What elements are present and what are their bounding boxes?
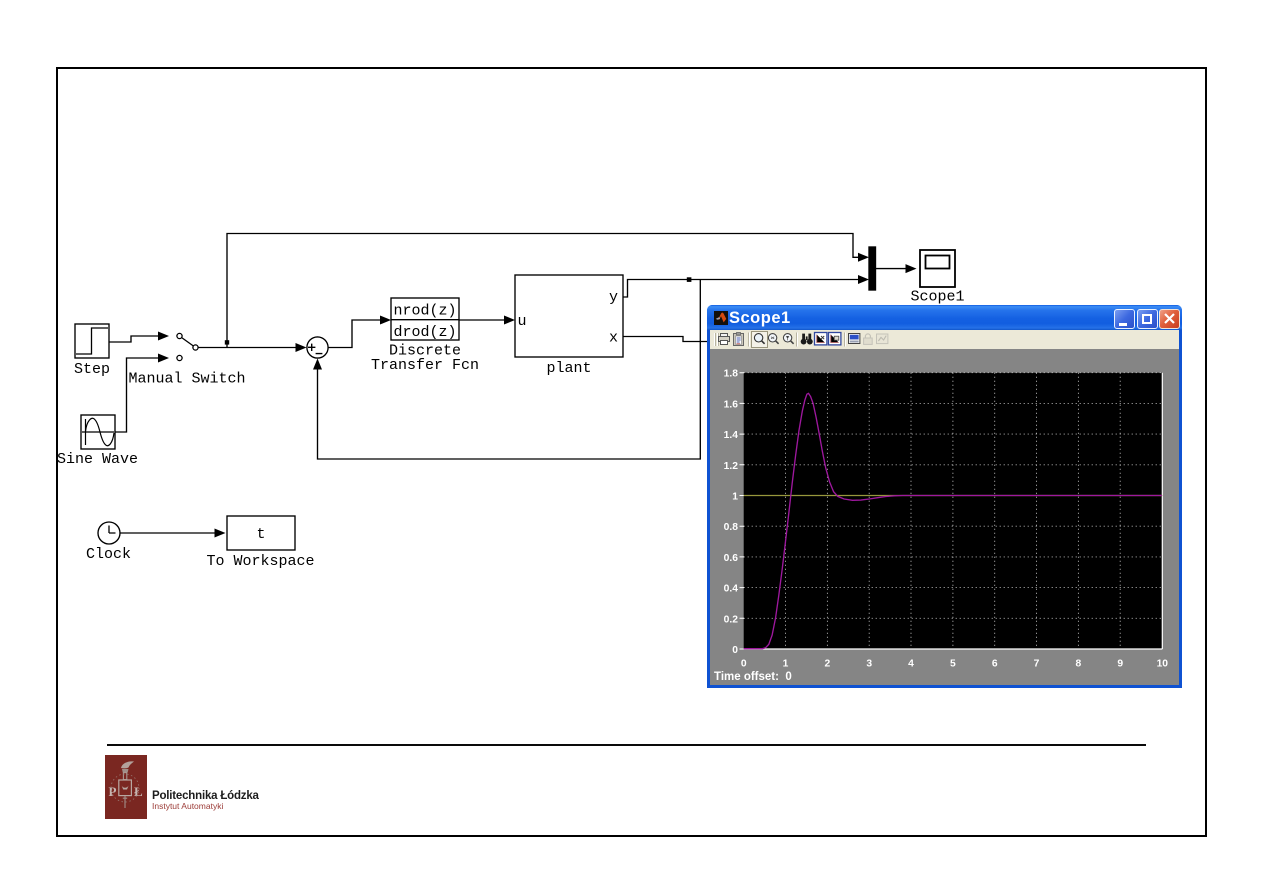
plot background [744,373,1163,649]
block Sine Wave [81,415,115,449]
toolbar grip [714,333,716,346]
block plant [515,275,623,357]
svg-text:plant: plant [546,360,591,377]
svg-text:Step: Step [74,361,110,378]
icon save axes 2 [829,333,841,345]
svg-text:Transfer Fcn: Transfer Fcn [371,357,479,374]
wire sum to Discrete Transfer Fcn [328,320,380,348]
svg-text:1.8: 1.8 [724,369,739,380]
torch flame [121,761,134,768]
icon binoculars [801,334,813,345]
minimize button [1114,309,1135,329]
client area [710,349,1179,685]
maximize button [1137,309,1158,329]
svg-text:Time offset: 0: Time offset: 0 [714,671,792,683]
svg-text:0.4: 0.4 [724,584,739,595]
svg-text:4: 4 [908,659,914,670]
axis box bottom and right [744,373,1163,649]
svg-text:nrod(z): nrod(z) [393,303,456,320]
arrowhead feedback into sum bottom [313,359,322,370]
svg-text:5: 5 [950,659,956,670]
arrowhead mux input 2 [858,275,869,284]
arrowhead into Discrete Transfer Fcn [380,316,391,325]
mux block [869,247,876,290]
arrowhead switch input 2 [158,354,169,363]
manual switch contacts [177,333,198,360]
svg-text:0: 0 [732,645,738,656]
sum block [307,337,328,358]
torch handle [123,773,126,780]
svg-text:7: 7 [1034,659,1040,670]
svg-text:8: 8 [1076,659,1082,670]
icon print [719,334,730,345]
toolbar separator [748,333,750,347]
block Step [75,324,109,358]
toolbar [710,330,1179,349]
svg-text:drod(z): drod(z) [393,324,456,341]
svg-text:P: P [109,784,117,799]
wire plant x output [623,337,707,342]
arrowhead mux input 1 [858,253,869,262]
vertical gridlines [785,373,787,649]
icon zoom y [783,334,793,344]
icon copy-to-clipboard [734,333,744,346]
icon signal selection (disabled) [877,334,888,344]
block Discrete Transfer Fcn [391,298,459,341]
wire switch to sum [198,347,296,349]
wire Discrete Transfer Fcn to plant [459,319,505,321]
x axis labels [741,659,1168,670]
svg-text:1: 1 [783,659,789,670]
wire Sine Wave to switch input 2 [115,358,159,432]
svg-text:Scope1: Scope1 [910,289,964,306]
svg-text:6: 6 [992,659,998,670]
junction dot on branch [225,340,229,344]
block Scope1 [920,250,955,287]
slide frame [56,67,1207,837]
svg-text:3: 3 [866,659,872,670]
junction dot on y line [687,277,692,282]
block To Workspace [227,516,295,550]
arrowhead into To Workspace [215,529,226,538]
svg-text:9: 9 [1117,659,1123,670]
wire Clock to To Workspace [120,532,215,534]
y axis labels [724,369,739,656]
decorative ring [111,774,139,802]
wire feedback from y line to sum [318,280,701,460]
title text [729,309,791,328]
arrowhead into plant [504,316,515,325]
matlab icon [714,311,728,325]
arrowhead into Scope1 [906,264,917,273]
icon float display [849,334,860,344]
svg-text:1.6: 1.6 [724,399,739,410]
svg-text:y: y [609,289,618,306]
icon save axes 1 [815,333,827,345]
wire feedforward branch to mux input 1 [227,234,859,348]
sword below [123,796,127,808]
title bar [707,305,1182,330]
svg-text:Clock: Clock [86,546,131,563]
arrowhead switch input 1 [158,332,169,341]
scope plot [710,349,1179,685]
wire Step to switch input 1 [109,336,159,342]
close button [1159,309,1180,329]
svg-text:0.2: 0.2 [724,614,739,625]
toolbar separator [844,333,846,347]
logo text [152,790,259,802]
icon zoom x [768,334,778,344]
svg-text:Ł: Ł [134,784,143,799]
wire mux to Scope1 [876,268,907,270]
wire plant y to mux input 2 [623,280,859,298]
svg-text:1: 1 [732,492,738,503]
toolbar separator [796,333,798,347]
arrowhead into sum [296,343,307,352]
svg-text:1.2: 1.2 [724,461,739,472]
axis ticks [740,373,745,649]
shield [119,780,132,796]
horizontal gridlines [744,372,1163,374]
svg-text:x: x [609,330,618,347]
response curve [744,393,1162,648]
icon zoom xy (pressed) [752,332,768,348]
logo Politechnika Lodzka [105,755,147,819]
svg-text:Manual Switch: Manual Switch [128,371,245,388]
svg-text:0.6: 0.6 [724,553,739,564]
svg-text:10: 10 [1157,659,1169,670]
svg-text:1.4: 1.4 [724,430,739,441]
icon locked (disabled) [864,334,873,344]
svg-text:0.8: 0.8 [724,522,739,533]
svg-text:Sine Wave: Sine Wave [57,451,138,468]
Scope1 window [707,305,1182,688]
svg-text:0: 0 [741,659,747,670]
block Clock [98,522,120,544]
reference line y=1 [744,495,1163,497]
svg-text:2: 2 [825,659,831,670]
svg-text:t: t [256,526,265,543]
svg-text:To Workspace: To Workspace [206,553,314,570]
svg-text:u: u [518,313,527,330]
footer rule [107,744,1146,746]
